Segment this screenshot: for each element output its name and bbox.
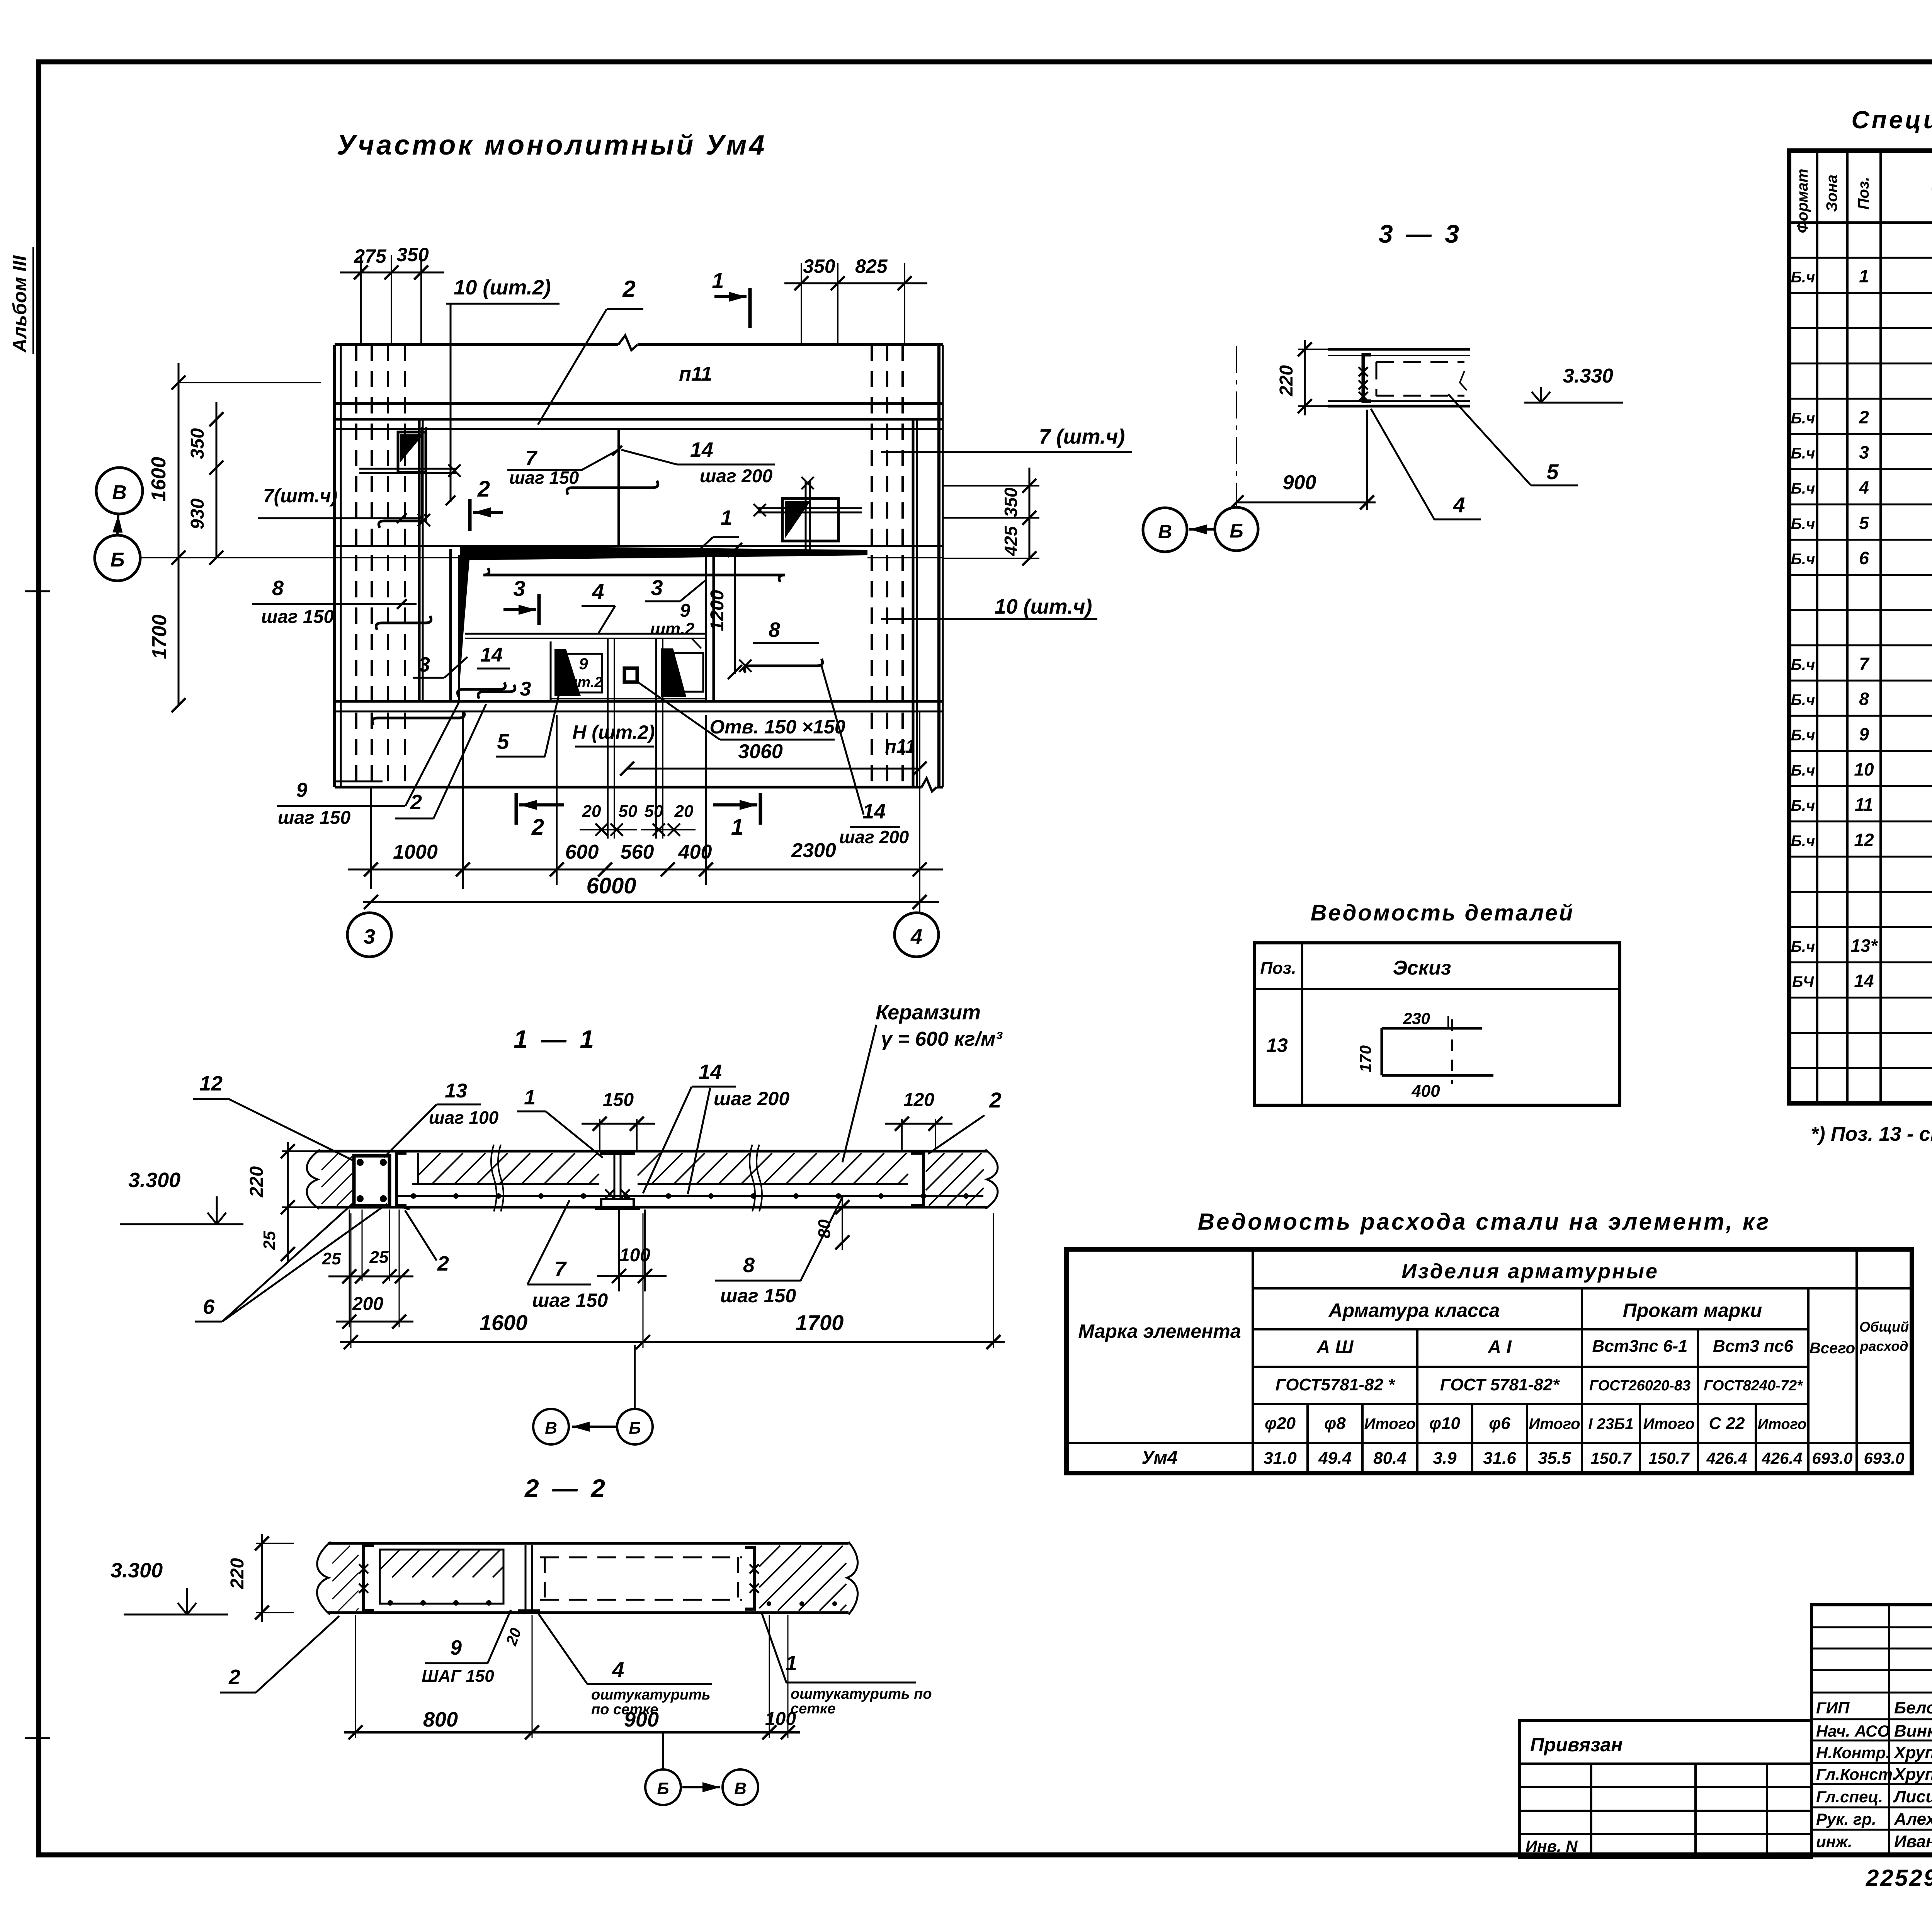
svg-text:2300: 2300	[791, 839, 836, 862]
svg-text:425: 425	[1001, 526, 1021, 556]
embedded plate upper left	[398, 432, 426, 472]
label 7 sht4 left	[258, 485, 423, 523]
svg-text:2: 2	[228, 1666, 240, 1689]
dimension 275 350 top left	[340, 244, 444, 345]
svg-text:1600: 1600	[148, 457, 170, 502]
svg-text:8: 8	[272, 577, 284, 600]
section 2-2 elevation 3.300	[111, 1559, 228, 1614]
svg-text:оштукатурить по: оштукатурить по	[791, 1686, 932, 1702]
svg-text:Б: Б	[111, 549, 125, 571]
section 2-2 inner cavity with hatch	[380, 1550, 503, 1606]
svg-text:7 (шт.ч): 7 (шт.ч)	[1039, 425, 1125, 448]
specification header texts	[1794, 162, 1932, 233]
section 1-1 label 7 shag150	[527, 1200, 608, 1311]
svg-text:Поз.: Поз.	[1260, 959, 1296, 978]
svg-text:14: 14	[1854, 971, 1874, 991]
dimension 3060	[620, 740, 927, 776]
svg-text:Б.ч: Б.ч	[1791, 727, 1815, 744]
label 5 with leader	[496, 685, 561, 757]
dimension 350 825 top right	[784, 255, 927, 345]
svg-text:1: 1	[1859, 266, 1869, 286]
svg-text:С 22: С 22	[1709, 1414, 1745, 1433]
label P11 lower right	[885, 737, 915, 757]
label 7 shag150 mid	[507, 446, 622, 488]
label P11 upper	[679, 363, 712, 385]
label 1 upper right	[696, 506, 739, 553]
svg-text:шаг 100: шаг 100	[429, 1108, 499, 1128]
svg-text:14: 14	[862, 800, 886, 823]
steel table values	[1141, 1448, 1904, 1468]
svg-text:14: 14	[690, 438, 713, 461]
label 3 right with leader	[645, 575, 706, 601]
hole opening 150x150 square	[624, 668, 637, 682]
svg-text:расход: расход	[1860, 1338, 1908, 1354]
svg-text:Б.ч: Б.ч	[1791, 445, 1815, 462]
svg-text:600: 600	[565, 841, 599, 863]
svg-text:φ8: φ8	[1324, 1414, 1346, 1433]
svg-text:п11: п11	[679, 363, 712, 385]
svg-text:1: 1	[786, 1652, 797, 1675]
specification title	[1851, 106, 1932, 134]
section 1-1 label 12	[193, 1072, 355, 1161]
svg-text:1700: 1700	[796, 1310, 844, 1335]
section 1-1 slab bottom line	[317, 1206, 988, 1209]
section 1-1 dimension 220 left	[247, 1142, 321, 1217]
extension lines bottom chain	[371, 711, 920, 913]
label 8 right inner	[753, 618, 819, 643]
svg-text:13: 13	[1266, 1034, 1288, 1056]
svg-text:900: 900	[1283, 471, 1316, 494]
label 2 lower left with leader	[395, 704, 486, 818]
svg-text:14: 14	[699, 1060, 722, 1084]
svg-text:14: 14	[480, 644, 503, 666]
svg-text:ГОСТ5781-82 *: ГОСТ5781-82 *	[1276, 1375, 1395, 1394]
svg-text:7: 7	[525, 447, 538, 470]
svg-text:400: 400	[1411, 1082, 1440, 1101]
svg-text:4: 4	[592, 579, 604, 604]
steel table title	[1198, 1209, 1771, 1235]
svg-text:Изделия арматурные: Изделия арматурные	[1401, 1260, 1659, 1283]
section 3-3 dimension 220	[1276, 340, 1333, 415]
dimension 1200 inner	[707, 543, 742, 679]
section 3-3 channel 4	[1359, 355, 1371, 401]
album label left margin rotated	[9, 247, 33, 354]
svg-text:Керамзит: Керамзит	[876, 1001, 981, 1024]
svg-text:6000: 6000	[586, 873, 636, 898]
svg-text:9: 9	[680, 601, 690, 621]
svg-text:80: 80	[815, 1219, 834, 1238]
svg-text:Марка элемента: Марка элемента	[1078, 1320, 1241, 1342]
svg-text:1600: 1600	[480, 1310, 528, 1335]
section 1-1 left break curve	[307, 1150, 320, 1209]
svg-text:22529-03: 22529-03	[1866, 1865, 1932, 1891]
svg-text:5: 5	[497, 729, 509, 754]
svg-text:Отв. 150 ×150: Отв. 150 ×150	[709, 716, 845, 738]
axis circle 3	[347, 913, 391, 957]
svg-text:инж.: инж.	[1816, 1832, 1852, 1851]
section 1-1 bottom dimension 1600 1700	[340, 1213, 1005, 1349]
label 8 shag150 left	[252, 577, 417, 627]
monolithic lintel filled wedge	[460, 546, 867, 560]
dimension 1700 left	[148, 558, 185, 712]
svg-text:220: 220	[247, 1166, 267, 1198]
svg-text:В: В	[112, 481, 127, 504]
axis B horizontal line	[140, 557, 943, 558]
svg-text:Общий: Общий	[1859, 1319, 1909, 1335]
svg-text:Итого: Итого	[1364, 1415, 1415, 1432]
svg-text:шаг 150: шаг 150	[532, 1290, 608, 1311]
svg-text:Вст3пс 6-1: Вст3пс 6-1	[1592, 1337, 1687, 1356]
svg-text:ГОСТ 5781-82*: ГОСТ 5781-82*	[1440, 1375, 1560, 1394]
section 1-1 dimension 100	[597, 1210, 667, 1291]
svg-text:БЧ: БЧ	[1792, 973, 1814, 990]
section 1-1 elevation 3.300	[120, 1169, 243, 1224]
channel piece right with black wedge	[661, 648, 703, 697]
rebar hooks right area	[483, 568, 785, 582]
svg-text:693.0: 693.0	[1812, 1449, 1852, 1467]
section 1-1 channel right	[911, 1153, 923, 1205]
svg-text:шаг 200: шаг 200	[839, 827, 909, 847]
rebar with hooks right inner	[739, 659, 864, 815]
section 3-3 title	[1379, 219, 1462, 248]
opening right jamb lines	[706, 549, 714, 701]
svg-text:шт.2: шт.2	[650, 619, 695, 638]
section 2-2 label 4 plaster note	[538, 1613, 712, 1718]
rebar with hooks mid lintel	[567, 481, 658, 495]
section 1-1 label 13 shag100	[384, 1080, 499, 1157]
svg-text:шаг 200: шаг 200	[700, 466, 773, 487]
label 9 shag150 lower left	[277, 701, 460, 828]
label 4 mid with leader	[582, 579, 615, 634]
svg-text:шаг 200: шаг 200	[714, 1088, 789, 1109]
parts list table grid	[1255, 943, 1620, 1105]
svg-text:50: 50	[619, 802, 638, 821]
axis circle V left	[96, 468, 143, 514]
svg-text:Всего: Всего	[1810, 1340, 1855, 1357]
left wall outer lines	[335, 345, 341, 787]
section mark 3 mid	[503, 576, 539, 625]
svg-text:3: 3	[418, 653, 430, 676]
svg-text:10 (шт.2): 10 (шт.2)	[454, 276, 551, 299]
svg-text:8: 8	[1859, 689, 1869, 709]
dimension 350 425 right	[943, 468, 1039, 565]
svg-text:Гл.спец.: Гл.спец.	[1816, 1788, 1883, 1806]
svg-text:Участок монолитный Ум4: Участок монолитный Ум4	[337, 130, 767, 161]
micro dims 20 50 50 20	[580, 802, 696, 836]
axis circle 4	[895, 913, 939, 957]
svg-text:2 — 2: 2 — 2	[524, 1474, 608, 1502]
svg-text:Б.ч: Б.ч	[1791, 410, 1815, 427]
parts list sketch	[1356, 1009, 1493, 1101]
svg-text:ГИП: ГИП	[1816, 1699, 1850, 1717]
dimension 1600 left	[148, 363, 321, 565]
label 2 with long leader top	[538, 276, 643, 425]
plan opening bottom lines	[335, 701, 943, 711]
label N sht2	[572, 721, 655, 747]
section 1-1 keramzit hatch left span	[412, 1153, 599, 1184]
section 1-1 label 8 shag150	[715, 1196, 843, 1307]
svg-text:3: 3	[651, 575, 663, 600]
right wall inner edge lines	[913, 419, 917, 787]
svg-text:шаг 150: шаг 150	[509, 468, 579, 488]
svg-text:400: 400	[678, 841, 712, 863]
svg-text:6: 6	[203, 1295, 215, 1318]
svg-text:4: 4	[910, 925, 922, 948]
section 1-1 keramzit hatch right span	[638, 1153, 908, 1184]
svg-text:10 (шт.ч): 10 (шт.ч)	[995, 595, 1092, 618]
left wall inner edge lines	[419, 419, 423, 701]
svg-text:Эскиз: Эскиз	[1393, 957, 1451, 979]
svg-text:25: 25	[322, 1249, 341, 1268]
svg-text:В: В	[1158, 521, 1172, 543]
svg-text:φ20: φ20	[1265, 1414, 1296, 1433]
svg-text:Рук. гр.: Рук. гр.	[1816, 1810, 1876, 1828]
steel table headers	[1078, 1260, 1909, 1433]
svg-text:12: 12	[199, 1072, 223, 1095]
svg-text:25: 25	[369, 1248, 389, 1267]
label 9 sht2 in box	[565, 655, 603, 691]
section 2-2 left concrete speckle	[332, 1546, 359, 1611]
section mark 1 bottom	[713, 793, 760, 840]
label 14 shag200 bottom right	[839, 800, 909, 847]
svg-text:31.6: 31.6	[1483, 1449, 1516, 1468]
svg-text:Б.ч: Б.ч	[1791, 762, 1815, 779]
section 1-1 break squiggles right	[750, 1145, 762, 1211]
svg-text:150: 150	[603, 1090, 634, 1110]
section 2-2 middle beam web	[518, 1545, 540, 1611]
svg-text:350: 350	[396, 244, 429, 265]
svg-text:Ведомость расхода стали на: Ведомость расхода стали на элемент, кг	[1198, 1209, 1771, 1235]
channel piece left with black wedge	[554, 649, 602, 696]
svg-text:350: 350	[1001, 487, 1021, 517]
dimension 6000	[363, 873, 939, 909]
section 1-1 label 2 top right	[928, 1088, 1002, 1154]
svg-text:100: 100	[765, 1709, 796, 1729]
svg-text:Иванов: Иванов	[1894, 1832, 1932, 1851]
svg-text:Спецификация участка моноли: Спецификация участка монолитного Ум4	[1851, 106, 1932, 134]
svg-text:230: 230	[1403, 1009, 1430, 1028]
svg-text:3: 3	[513, 576, 525, 601]
section 3-3 axis circle V	[1143, 508, 1187, 552]
specification table contents	[1791, 230, 1932, 1097]
small rebar mark below 14	[478, 685, 515, 699]
parts list headers	[1260, 957, 1451, 979]
opening left jamb lines	[451, 549, 459, 701]
svg-text:8: 8	[769, 618, 780, 641]
svg-text:Гл.Конст.: Гл.Конст.	[1816, 1765, 1897, 1783]
section 2-2 label 2	[220, 1616, 339, 1693]
svg-text:оштукатурить: оштукатурить	[591, 1687, 711, 1703]
plan lintel top lines	[335, 419, 943, 429]
section 1-1 label 2 lower	[405, 1210, 449, 1275]
svg-text:50: 50	[645, 802, 663, 821]
svg-text:2: 2	[437, 1252, 449, 1275]
svg-text:12: 12	[1854, 830, 1874, 850]
svg-text:20: 20	[582, 802, 601, 821]
svg-text:200: 200	[352, 1294, 383, 1314]
label 3 small below	[520, 678, 531, 700]
svg-text:сетке: сетке	[791, 1701, 835, 1717]
svg-text:Б.ч: Б.ч	[1791, 692, 1815, 709]
svg-text:*) Поз. 13 - см. ведомость: *) Поз. 13 - см. ведомость деталей	[1811, 1123, 1932, 1145]
section 1-1 middle I-beam	[595, 1153, 640, 1209]
section 3-3 axis dash-dot	[1236, 346, 1237, 507]
svg-text:13: 13	[445, 1080, 467, 1102]
svg-text:220: 220	[1276, 365, 1297, 396]
svg-text:1000: 1000	[393, 841, 438, 863]
specification table grid	[1789, 151, 1932, 1103]
specification footnote	[1811, 1123, 1932, 1145]
section 2-2 right break line	[847, 1542, 858, 1614]
svg-text:11: 11	[1855, 794, 1873, 815]
svg-text:Б: Б	[657, 1779, 669, 1798]
svg-text:Зона: Зона	[1823, 175, 1840, 212]
section 3-3 slab bottom line	[1328, 401, 1470, 406]
svg-text:γ = 600 кг/м³: γ = 600 кг/м³	[881, 1028, 1003, 1050]
section 2-2 title	[524, 1474, 608, 1502]
section 1-1 dimension 80	[815, 1196, 849, 1250]
svg-text:Хрупало: Хрупало	[1893, 1743, 1932, 1762]
section 3-3 label 4	[1371, 409, 1481, 519]
svg-text:2: 2	[410, 791, 422, 814]
svg-text:Б.ч: Б.ч	[1791, 551, 1815, 568]
label 14 shag200 upper	[621, 438, 775, 487]
svg-text:Н (шт.2): Н (шт.2)	[572, 721, 655, 743]
central assembly top lines	[465, 634, 706, 638]
bottom margin texts	[1866, 1863, 1932, 1891]
svg-text:560: 560	[621, 841, 654, 863]
section 1-1 slab top line	[317, 1150, 988, 1153]
svg-text:п11: п11	[885, 737, 915, 757]
svg-text:3 — 3: 3 — 3	[1379, 219, 1462, 248]
svg-text:Итого: Итого	[1529, 1415, 1580, 1432]
svg-text:275: 275	[354, 245, 387, 267]
svg-text:7: 7	[554, 1257, 567, 1281]
section mark 2 mid	[470, 476, 503, 531]
svg-text:Арматура класса: Арматура класса	[1328, 1300, 1500, 1321]
svg-text:Белоус: Белоус	[1894, 1698, 1932, 1717]
label 10 sht2 with leader	[446, 276, 560, 505]
svg-text:825: 825	[855, 255, 888, 277]
section 2-2 arrow B to V	[663, 1732, 720, 1792]
dimension 350 930 left	[187, 402, 223, 565]
section 1-1 label 1	[517, 1086, 603, 1158]
rebar hooks left wall a	[379, 514, 426, 528]
svg-text:Ведомость деталей: Ведомость деталей	[1311, 900, 1575, 925]
fold mark left edge	[25, 591, 50, 1738]
svg-text:Б.ч: Б.ч	[1791, 515, 1815, 532]
svg-text:Нач. АСО: Нач. АСО	[1816, 1722, 1890, 1740]
keramzit note with leader	[842, 1001, 1003, 1162]
personnel table names	[1816, 1698, 1932, 1851]
svg-text:I 23Б1: I 23Б1	[1588, 1415, 1633, 1432]
svg-text:31.0: 31.0	[1264, 1449, 1297, 1468]
steel table grid	[1066, 1249, 1912, 1473]
rebar hooks left wall c	[457, 682, 505, 696]
svg-text:9: 9	[1859, 724, 1869, 744]
section 2-2 right end hatch	[759, 1546, 846, 1611]
central assembly outer box	[551, 641, 706, 700]
svg-text:25: 25	[260, 1231, 279, 1250]
section 1-1 dimension 120	[885, 1090, 952, 1150]
svg-text:693.0: 693.0	[1864, 1449, 1904, 1467]
svg-text:Б.ч: Б.ч	[1791, 938, 1815, 955]
section 1-1 arrow B to V	[572, 1345, 635, 1432]
svg-text:Лисичкин: Лисичкин	[1893, 1787, 1932, 1806]
svg-text:Итого: Итого	[1643, 1415, 1694, 1432]
personnel table grid	[1811, 1605, 1932, 1855]
axis circle B left	[95, 535, 140, 581]
svg-text:Прокат марки: Прокат марки	[1623, 1300, 1762, 1321]
section 3-3 slab top line	[1328, 349, 1470, 356]
svg-text:3: 3	[520, 678, 531, 700]
svg-text:1: 1	[524, 1086, 536, 1109]
plate rebar cross upper left	[359, 427, 461, 526]
svg-text:Б.ч: Б.ч	[1791, 797, 1815, 814]
svg-text:Б.ч: Б.ч	[1791, 269, 1815, 286]
svg-text:100: 100	[619, 1245, 650, 1266]
svg-text:49.4: 49.4	[1318, 1449, 1352, 1468]
svg-text:5: 5	[1546, 459, 1559, 484]
section 2-2 left channel	[359, 1546, 374, 1610]
svg-text:Н.Контр.: Н.Контр.	[1816, 1744, 1890, 1762]
section 3-3 dimension 900	[1230, 410, 1376, 510]
svg-text:3.300: 3.300	[128, 1169, 180, 1192]
left jamb filled taper	[460, 546, 471, 676]
svg-text:1200: 1200	[707, 590, 728, 631]
plate rebar cross right	[753, 477, 862, 553]
svg-text:3.300: 3.300	[111, 1559, 163, 1582]
svg-text:220: 220	[227, 1558, 248, 1589]
label Otv 150x150 with leader	[638, 682, 845, 740]
section 3-3 axis circle B	[1215, 507, 1258, 551]
label 14 small mid	[477, 644, 510, 669]
label 9 sht2 upper	[650, 601, 701, 648]
section mark 2 bottom	[516, 793, 564, 840]
svg-text:1: 1	[712, 268, 724, 293]
section 1-1 label 6 with leaders	[195, 1202, 387, 1322]
svg-text:10: 10	[1854, 759, 1874, 779]
right wall hidden dashed lines	[872, 345, 903, 784]
svg-text:Б.ч: Б.ч	[1791, 832, 1815, 849]
svg-text:3: 3	[364, 925, 375, 948]
section 1-1 left concrete speckle	[321, 1153, 352, 1206]
rebar hooks left wall b	[376, 616, 431, 630]
svg-text:2: 2	[1859, 407, 1869, 427]
svg-text:ГОСТ8240-72*: ГОСТ8240-72*	[1704, 1378, 1803, 1394]
svg-text:426.4: 426.4	[1761, 1449, 1802, 1467]
section 2-2 axis circle B	[645, 1769, 681, 1805]
svg-text:150.7: 150.7	[1648, 1449, 1690, 1467]
label 3 lower left	[413, 653, 468, 678]
embedded plate right	[782, 498, 838, 541]
section 1-1 dimension 150	[582, 1090, 655, 1150]
N bars vertical pair b	[656, 638, 663, 839]
svg-text:Итого: Итого	[1758, 1416, 1806, 1432]
svg-text:ГОСТ26020-83: ГОСТ26020-83	[1589, 1378, 1690, 1394]
parts list title	[1311, 900, 1575, 925]
svg-text:Винклер: Винклер	[1894, 1722, 1932, 1740]
svg-text:φ6: φ6	[1489, 1414, 1510, 1433]
svg-text:Б.ч: Б.ч	[1791, 657, 1815, 674]
svg-text:Б.ч: Б.ч	[1791, 480, 1815, 497]
svg-text:1: 1	[721, 506, 732, 529]
section 2-2 bottom dimensions 800 900 100	[344, 1615, 800, 1739]
svg-text:Инв. N: Инв. N	[1526, 1837, 1578, 1855]
svg-text:Хрупало: Хрупало	[1893, 1765, 1932, 1784]
section 3-3 label 5	[1448, 394, 1578, 485]
svg-text:170: 170	[1356, 1045, 1374, 1072]
